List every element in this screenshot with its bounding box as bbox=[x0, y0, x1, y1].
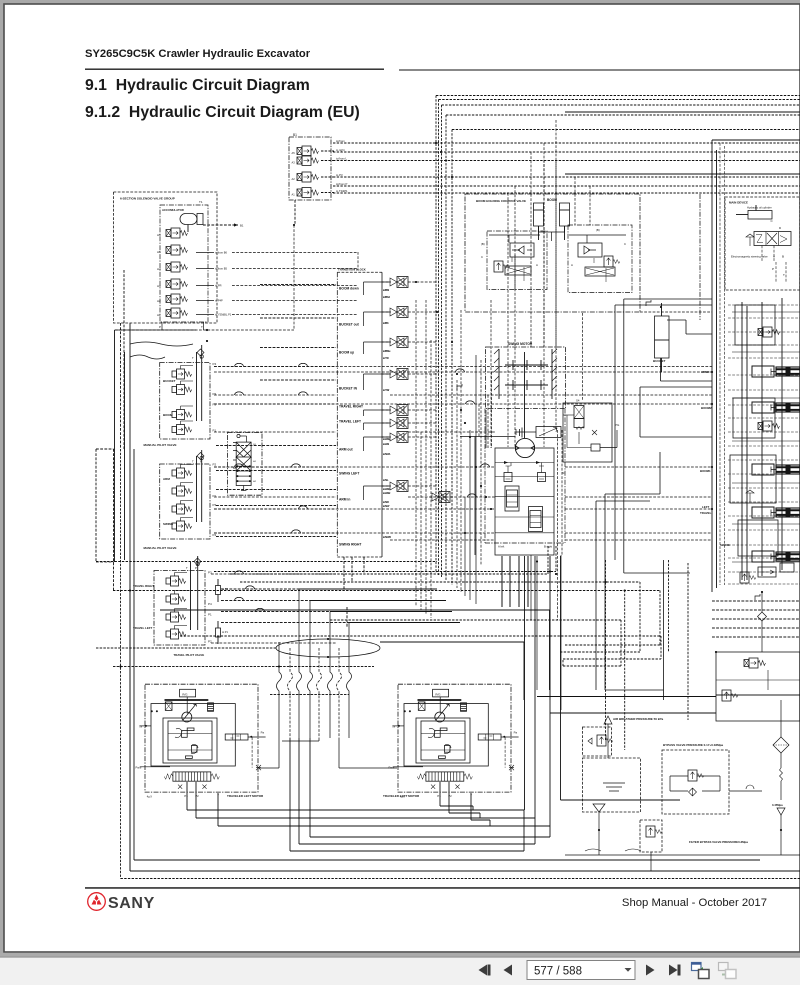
wire pilot signal line 3 bbox=[333, 160, 800, 162]
mcv check upper bbox=[746, 234, 754, 246]
svg-text:Pa/b: Pa/b bbox=[136, 766, 142, 770]
wire bottom dashed bus 5 bbox=[113, 591, 660, 646]
swing motor rotor bbox=[515, 438, 534, 457]
wire transition bottom drops bbox=[344, 557, 364, 628]
svg-text:to/SL: to/SL bbox=[383, 479, 389, 482]
wire left supply verticals bbox=[115, 330, 131, 871]
wire A3 output bbox=[196, 285, 214, 287]
solenoid valve A1 bbox=[166, 308, 187, 318]
svg-text:P4: P4 bbox=[208, 602, 212, 606]
wire travel pilot to swivel 1 bbox=[221, 588, 299, 590]
svg-text:9.1 Hydraulic Circuit Diagram: 9.1 Hydraulic Circuit Diagram bbox=[85, 77, 310, 94]
solenoid valve A4 bbox=[166, 262, 187, 272]
pilot check valve TB3 bbox=[382, 337, 408, 348]
svg-text:P1: P1 bbox=[213, 494, 217, 498]
svg-text:A1: A1 bbox=[292, 193, 296, 197]
svg-text:BOOM1: BOOM1 bbox=[700, 469, 711, 473]
wire staircase e bbox=[596, 501, 650, 690]
svg-text:LEFT: LEFT bbox=[702, 505, 709, 509]
svg-text:BOOM: BOOM bbox=[163, 413, 173, 417]
svg-text:to/from: to/from bbox=[336, 139, 345, 143]
wire lower dashed bus B bbox=[270, 694, 349, 696]
svg-text:FILTER BYPASS VALVE PRESSURE0.: FILTER BYPASS VALVE PRESSURE0.3Mpa bbox=[689, 840, 748, 844]
svg-text:Pa: Pa bbox=[261, 730, 265, 734]
wire A5 output bbox=[196, 252, 214, 254]
main control valve body lines bbox=[712, 140, 800, 592]
page combo box bbox=[527, 961, 635, 980]
svg-text:A4: A4 bbox=[157, 267, 161, 271]
wire bucket cylinder bottom run bbox=[661, 358, 713, 381]
wire swivel feed 2 bbox=[310, 600, 446, 602]
mpv2 T P ports bbox=[192, 450, 203, 522]
tpv T P ports bbox=[186, 556, 199, 630]
wire staircase b bbox=[624, 299, 712, 573]
swing motor enclosure bbox=[486, 347, 566, 409]
wire hop bumps bbox=[235, 363, 490, 611]
main control valve inner boxes bbox=[730, 305, 778, 562]
pilot valve unit 2-3 bbox=[172, 501, 193, 515]
PG valve block enclosure bbox=[563, 403, 612, 462]
svg-text:to/AMi: to/AMi bbox=[383, 488, 390, 491]
svg-text:A2: A2 bbox=[157, 299, 161, 303]
6-section solenoid valve group enclosure bbox=[114, 192, 218, 323]
wire A2 output bbox=[196, 300, 214, 302]
wire lower dashed bus A bbox=[113, 666, 374, 668]
wire travel pilot to swivel 3 bbox=[221, 611, 330, 613]
svg-text:ARM out: ARM out bbox=[339, 448, 353, 452]
PG check box bbox=[563, 415, 600, 451]
transition row port labels bbox=[383, 289, 391, 539]
mcv check mid bbox=[746, 490, 754, 502]
wire pilot bracket 3 bbox=[446, 115, 800, 581]
swing brake valve bbox=[516, 427, 561, 438]
svg-text:A3: A3 bbox=[157, 284, 161, 288]
svg-text:SANY: SANY bbox=[108, 895, 155, 912]
wire top bus drops bbox=[508, 143, 590, 347]
mcv drain diamond bbox=[758, 592, 767, 652]
wire travel pilot to swivel 2 bbox=[221, 600, 310, 602]
wire main device ports bbox=[762, 246, 786, 283]
transition internal branches bbox=[364, 282, 383, 500]
svg-text:P2: P2 bbox=[213, 463, 217, 467]
solenoid valve A3 bbox=[166, 279, 187, 289]
svg-text:BOOM2: BOOM2 bbox=[701, 406, 712, 410]
valve group inner block bbox=[160, 205, 208, 322]
svg-text:AIR BREATHER PRESSURE 50 kPa: AIR BREATHER PRESSURE 50 kPa bbox=[613, 717, 663, 721]
check node diamond mpv1 bbox=[197, 349, 204, 356]
wire pilot bracket 1 bbox=[436, 96, 800, 574]
svg-text:SWING MOTOR: SWING MOTOR bbox=[508, 342, 533, 346]
svg-text:BOOM HOLDING CONTROL VALVE: BOOM HOLDING CONTROL VALVE bbox=[476, 199, 526, 203]
wire main pressure line P2 bbox=[565, 173, 800, 175]
pilot valve unit 1-2 bbox=[172, 381, 193, 395]
wire pilot bracket 1b bbox=[439, 100, 800, 576]
svg-text:P: P bbox=[772, 267, 774, 271]
wire travel pilot to swivel 2 bbox=[221, 600, 310, 602]
svg-text:TRAVEL: TRAVEL bbox=[700, 511, 712, 515]
boom holding control valve enclosure bbox=[465, 194, 640, 312]
swing enclosure lower dashdot bbox=[485, 409, 565, 544]
solenoid valve block B1 enclosure bbox=[289, 137, 331, 200]
svg-text:BUCKET IN: BUCKET IN bbox=[339, 387, 358, 391]
rotary joint ellipse bbox=[276, 639, 380, 657]
svg-text:P1: P1 bbox=[184, 794, 188, 798]
wire bottom dashed loop 7 bbox=[180, 636, 661, 659]
svg-text:BOOM up: BOOM up bbox=[339, 351, 354, 355]
svg-text:P3: P3 bbox=[213, 392, 217, 396]
svg-text:BUCKET: BUCKET bbox=[653, 359, 666, 363]
pilot check valve TB8 bbox=[382, 481, 408, 492]
svg-text:TRAVEL RIGHT: TRAVEL RIGHT bbox=[339, 405, 363, 409]
svg-text:ARM in: ARM in bbox=[339, 498, 350, 502]
swing relief valve left bbox=[504, 466, 512, 482]
svg-text:S4: S4 bbox=[576, 399, 580, 403]
svg-text:P1: P1 bbox=[208, 613, 212, 617]
svg-text:TRAVEL LEFT: TRAVEL LEFT bbox=[133, 626, 153, 630]
wire right dashed risers bbox=[606, 560, 689, 750]
svg-text:P2: P2 bbox=[213, 403, 217, 407]
svg-text:to T0&P1: to T0&P1 bbox=[336, 189, 348, 193]
svg-text:Ta: Ta bbox=[392, 725, 395, 729]
wire swing supply line bbox=[460, 437, 516, 556]
wire A5 output extension bbox=[232, 252, 358, 254]
pilot check valve TB4 bbox=[382, 369, 408, 380]
pilot check valve TB1 bbox=[382, 277, 408, 288]
svg-text:T: T bbox=[783, 273, 785, 277]
damper orifice 1 bbox=[216, 579, 229, 602]
wire travel pilot to swivel 4 bbox=[221, 622, 349, 624]
wire pilot signal line 1 bbox=[333, 142, 800, 144]
wire A1 output bbox=[196, 314, 214, 316]
solenoid valve B1-1 bbox=[297, 146, 319, 156]
wire B1 riser bbox=[294, 200, 296, 225]
hydraulic oil cylinder bbox=[736, 205, 772, 219]
wire B1-4 output bbox=[321, 192, 334, 194]
wire B1-2 output bbox=[321, 160, 334, 162]
filter bypass valve box bbox=[640, 820, 662, 871]
svg-text:to/TR: to/TR bbox=[383, 357, 389, 360]
svg-text:BUCKET out: BUCKET out bbox=[339, 323, 360, 327]
wire bottom dashed loop 6 bbox=[330, 620, 621, 666]
corner pigtail 1 bbox=[646, 300, 651, 306]
svg-text:to/AM2: to/AM2 bbox=[383, 492, 391, 495]
pilot check valve TB9 bbox=[432, 492, 450, 503]
svg-text:Pa/b: Pa/b bbox=[389, 766, 395, 770]
wire PG output bbox=[600, 430, 617, 448]
svg-text:T: T bbox=[201, 325, 203, 329]
svg-text:to right: to right bbox=[336, 148, 345, 152]
svg-text:TRAVELER LEFT MOTOR: TRAVELER LEFT MOTOR bbox=[383, 794, 420, 798]
wire pilot signal line 2 bbox=[333, 151, 800, 153]
svg-text:to/from B6: to/from B6 bbox=[215, 251, 228, 255]
wire B1-3 output bbox=[321, 176, 334, 178]
svg-text:to/SWL: to/SWL bbox=[383, 453, 391, 456]
svg-text:Hydraulic oil cylinder: Hydraulic oil cylinder bbox=[747, 206, 772, 210]
pilot check valve TB2 bbox=[382, 307, 408, 318]
wire bottom dashed bus 1 bbox=[96, 561, 437, 563]
svg-text:A6: A6 bbox=[157, 233, 161, 237]
svg-text:Pa: Pa bbox=[514, 730, 518, 734]
svg-text:SY265C9C5K Crawler Hydraulic E: SY265C9C5K Crawler Hydraulic Excavator bbox=[85, 48, 311, 60]
pilot valve unit 2-4 bbox=[172, 518, 193, 532]
tank return curve mpv1 bbox=[130, 342, 193, 346]
wire travel pilot to swivel 4 bbox=[221, 622, 349, 624]
svg-text:to/BMu: to/BMu bbox=[383, 350, 391, 353]
prev view icon bbox=[692, 963, 710, 979]
wire pilot supply horizontals bbox=[96, 330, 196, 562]
wire bottom risers right bbox=[525, 556, 681, 826]
wire A2 output extension bbox=[232, 300, 358, 302]
solenoid valve A5 bbox=[166, 245, 187, 255]
svg-text:to/AM: to/AM bbox=[383, 443, 389, 446]
wire dashdot riser x700 bbox=[699, 194, 701, 320]
svg-text:A1: A1 bbox=[157, 313, 161, 317]
holding valve assembly right bbox=[568, 225, 632, 293]
svg-text:MANUAL PILOT VALVE: MANUAL PILOT VALVE bbox=[144, 546, 177, 550]
SANY logo mark bbox=[88, 893, 106, 911]
svg-text:B: B bbox=[782, 255, 784, 259]
svg-text:P: P bbox=[159, 325, 161, 329]
wire A4 output extension bbox=[232, 268, 358, 270]
travel pilot unit 3 bbox=[166, 609, 187, 623]
arm 2 spool bbox=[771, 367, 800, 376]
label port P bbox=[159, 322, 162, 330]
svg-text:P4: P4 bbox=[213, 533, 217, 537]
swing check spool left bbox=[505, 486, 519, 511]
wire A-output drop bbox=[357, 252, 359, 270]
swing valve block enclosure bbox=[495, 448, 554, 555]
svg-text:R/G: R/G bbox=[435, 693, 441, 697]
svg-text:T1: T1 bbox=[199, 200, 203, 204]
wire bottom solid loop bbox=[160, 610, 550, 690]
wire staircase a bbox=[640, 387, 712, 437]
svg-text:T: T bbox=[186, 566, 188, 570]
svg-text:0.45Mpa: 0.45Mpa bbox=[772, 803, 783, 807]
swing spool bbox=[771, 552, 800, 561]
mpv1 T P ports bbox=[192, 345, 203, 421]
wire swivel axis dashed bbox=[96, 647, 276, 649]
svg-text:to/from B5: to/from B5 bbox=[215, 267, 228, 271]
wire A4 output bbox=[196, 268, 214, 270]
svg-text:(B): (B) bbox=[596, 228, 600, 232]
svg-text:P3: P3 bbox=[213, 503, 217, 507]
svg-text:P: P bbox=[195, 566, 197, 570]
air breather valve box bbox=[583, 727, 613, 756]
wire bucket cylinder rod top bbox=[667, 320, 712, 334]
svg-text:B1: B1 bbox=[240, 224, 244, 228]
pilot valve unit 1-3 bbox=[172, 406, 193, 420]
shuttle left ticks bbox=[233, 443, 236, 469]
svg-text:TRAVELER LEFT MOTOR: TRAVELER LEFT MOTOR bbox=[227, 794, 264, 798]
svg-text:4g X: 4g X bbox=[147, 794, 153, 798]
check node diamond mpv2 bbox=[197, 453, 204, 460]
svg-text:MANUAL PILOT VALVE: MANUAL PILOT VALVE bbox=[144, 443, 177, 447]
svg-text:to/TRr: to/TRr bbox=[383, 389, 390, 392]
travel motor right assembly bbox=[136, 684, 266, 798]
svg-text:to/from L: to/from L bbox=[336, 156, 347, 160]
travel pilot valve enclosure bbox=[154, 571, 205, 646]
hydraulic tank bbox=[583, 758, 641, 830]
pilot valve unit 1-1 bbox=[172, 366, 193, 380]
svg-text:9.1.2 Hydraulic Circuit Diagr: 9.1.2 Hydraulic Circuit Diagram (EU) bbox=[85, 104, 360, 121]
main device enclosure bbox=[725, 197, 800, 290]
swing motor housing walls bbox=[494, 349, 557, 399]
bypass valve enclosure bbox=[662, 750, 729, 814]
wire row pair lines bbox=[216, 285, 336, 537]
wire pilot signal line 5 bbox=[333, 185, 800, 187]
travel pilot unit 2 bbox=[166, 591, 187, 605]
svg-text:A2: A2 bbox=[292, 177, 296, 181]
label port T bbox=[201, 322, 204, 330]
transition block enclosure bbox=[337, 272, 382, 557]
toolbar bbox=[0, 953, 800, 958]
svg-text:to/AMo: to/AMo bbox=[383, 438, 391, 441]
wire transition bottom drops bbox=[344, 557, 364, 628]
pilot valve unit 1-4 bbox=[172, 421, 193, 435]
last page icon bbox=[669, 965, 678, 976]
svg-text:to/BKd: to/BKd bbox=[383, 296, 391, 299]
svg-text:6-SECTION SOLENOID VALVE GROUP: 6-SECTION SOLENOID VALVE GROUP bbox=[120, 197, 175, 201]
svg-text:A: A bbox=[536, 263, 538, 267]
mcv pilot valve upper bbox=[758, 327, 780, 337]
svg-text:ARM: ARM bbox=[163, 477, 170, 481]
solenoid valve B1-4 bbox=[297, 188, 319, 198]
svg-text:T: T bbox=[192, 356, 194, 360]
pilot check valve TB6 bbox=[382, 418, 408, 429]
damper orifice 2 bbox=[216, 621, 229, 644]
wire boom holding internals bbox=[489, 226, 626, 243]
diagram outer dashed border bbox=[121, 449, 800, 879]
wire swivel feed 5 bbox=[380, 642, 524, 700]
wire pump pressure line 2 bbox=[550, 712, 716, 714]
wire staircase d bbox=[605, 452, 660, 690]
bypass relief valve bbox=[670, 770, 720, 796]
solenoid valve A6 bbox=[166, 228, 187, 238]
svg-text:A left: A left bbox=[498, 545, 504, 549]
wire bottom dashed bus 3 bbox=[230, 546, 548, 574]
PG solenoid valve vertical bbox=[574, 406, 584, 445]
pilot valve unit 2-1 bbox=[172, 465, 193, 479]
label LEFT TRAVEL bbox=[700, 505, 712, 515]
svg-text:Electromagnetic steering valve: Electromagnetic steering valve bbox=[731, 255, 768, 259]
svg-text:(B): (B) bbox=[481, 242, 485, 246]
boom cylinder 2 bbox=[560, 203, 570, 240]
boom 1 spool bbox=[771, 465, 800, 474]
wire swivel axis dashed bbox=[96, 647, 276, 649]
svg-text:to P1: to P1 bbox=[222, 631, 228, 634]
shuttle block top pin bbox=[237, 434, 247, 442]
wire swivel tails bbox=[259, 738, 397, 768]
mcv pilot valve mid bbox=[758, 421, 780, 431]
wire staircase c bbox=[615, 305, 712, 560]
svg-text:MAIN DEVICE: MAIN DEVICE bbox=[729, 201, 748, 205]
svg-text:TRAVEL PILOT VALVE: TRAVEL PILOT VALVE bbox=[174, 653, 205, 657]
svg-text:SWING RIGHT: SWING RIGHT bbox=[339, 543, 361, 547]
boom cylinder 1 bbox=[534, 203, 544, 240]
svg-text:to Y59&BL.P1: to Y59&BL.P1 bbox=[215, 313, 232, 317]
wire B1-1 output bbox=[321, 150, 334, 152]
wire swing block drops bbox=[502, 556, 528, 607]
travel pilot unit 4 bbox=[166, 626, 187, 640]
left travel spool bbox=[771, 508, 800, 517]
svg-text:to PR: to PR bbox=[215, 284, 222, 288]
wire pump pressure line 1 bbox=[537, 696, 716, 698]
shuttle valve cross network bbox=[236, 442, 251, 490]
svg-text:to/from P: to/from P bbox=[336, 182, 347, 186]
svg-text:A: A bbox=[571, 263, 573, 267]
svg-text:TRAVEL LEFT: TRAVEL LEFT bbox=[339, 420, 361, 424]
bucket cylinder bbox=[655, 303, 670, 372]
corner pigtail 3 bbox=[457, 384, 462, 390]
svg-text:PG: PG bbox=[615, 423, 620, 427]
svg-text:R/G: R/G bbox=[182, 693, 188, 697]
wire row pair lines bbox=[216, 285, 336, 537]
wire swivel feed 1 bbox=[299, 588, 437, 590]
wire pilot port stubs left bbox=[211, 367, 336, 644]
svg-text:C: C bbox=[624, 242, 626, 246]
svg-text:BYPASS VALVE PRESSURE 0.17+0.0: BYPASS VALVE PRESSURE 0.17+0.03Mpa bbox=[663, 743, 723, 747]
svg-text:TRANSITION BLOCK: TRANSITION BLOCK bbox=[338, 268, 366, 272]
svg-text:ACCUMULATOR: ACCUMULATOR bbox=[162, 208, 184, 212]
wire boom box drop bbox=[582, 313, 584, 400]
wire mid extra verticals bbox=[421, 300, 492, 618]
svg-text:BOOM down: BOOM down bbox=[339, 287, 359, 291]
wire group left port riser bbox=[121, 270, 125, 449]
wire hop bumps bbox=[235, 363, 490, 611]
wire travel motor 2 loops bbox=[290, 738, 550, 851]
wire swivel feed 3 bbox=[330, 611, 452, 613]
next page icon bbox=[646, 965, 655, 976]
solenoid valve B1-3 bbox=[297, 172, 319, 182]
svg-text:to P4P: to P4P bbox=[215, 299, 223, 303]
swing check spool right bbox=[529, 507, 543, 532]
wire top pressure bus bbox=[399, 69, 800, 71]
wire transition to checks bbox=[382, 282, 438, 486]
wire accumulator to B1 port bbox=[203, 223, 244, 227]
pilot check valve TB5 bbox=[382, 405, 408, 416]
pilot check valve TB7 bbox=[382, 432, 408, 443]
svg-text:Shop Manual - October 2017: Shop Manual - October 2017 bbox=[622, 897, 767, 909]
wire travel pilot to swivel 3 bbox=[221, 611, 330, 613]
svg-text:to/SR: to/SR bbox=[383, 501, 389, 504]
holding valve assembly left bbox=[487, 231, 547, 290]
wire mcv lower dashed rows bbox=[712, 601, 800, 695]
electromagnetic steering valve bbox=[754, 232, 791, 246]
swing gear train bbox=[505, 352, 548, 438]
manual pilot valve 2 enclosure bbox=[160, 464, 210, 539]
svg-text:to/SW: to/SW bbox=[383, 505, 390, 508]
tank return curve mpv1 lower bbox=[130, 355, 165, 359]
prev page icon bbox=[504, 965, 513, 976]
svg-text:P4: P4 bbox=[213, 362, 217, 366]
air breather symbol bbox=[604, 716, 612, 758]
PG orifice X bbox=[592, 430, 597, 435]
wire swivel feed 4 bbox=[349, 622, 460, 624]
svg-text:BUCKET: BUCKET bbox=[163, 379, 176, 383]
svg-text:A5: A5 bbox=[292, 151, 296, 155]
wire lower dashed bus B bbox=[270, 694, 349, 696]
swing relief valve right bbox=[538, 466, 546, 482]
wire staircase f bbox=[605, 560, 664, 700]
wire swing block drops bbox=[502, 556, 528, 607]
wire A1 output extension bbox=[232, 314, 358, 316]
wire tank bottom bus bbox=[565, 830, 800, 855]
wire lower dashed bus A bbox=[113, 666, 374, 668]
header rule bbox=[85, 69, 384, 70]
svg-text:C: C bbox=[481, 255, 483, 259]
wire travel pilot to swivel 1 bbox=[221, 588, 299, 590]
svg-text:TRAVEL RIGHT: TRAVEL RIGHT bbox=[133, 584, 154, 588]
